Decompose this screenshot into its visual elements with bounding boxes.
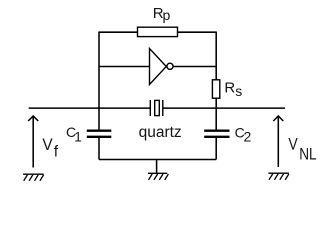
svg-text:quartz: quartz <box>139 124 182 141</box>
crystal X1 left plate <box>149 100 151 116</box>
capacitor C1 top plate <box>87 130 112 132</box>
wire left vertical (top rail to C1) <box>98 32 100 130</box>
wire mid rail right <box>163 107 285 109</box>
ground center <box>148 173 169 180</box>
label Vnl <box>288 135 298 153</box>
wire right vertical (Rs to C2) <box>215 98 217 130</box>
op-amp U1 inverter triangle <box>150 49 167 85</box>
svg-text:Rp: Rp <box>153 5 171 23</box>
wire mid rail left <box>29 107 151 109</box>
capacitor C1 bottom plate <box>87 136 112 138</box>
svg-text:NL: NL <box>299 145 317 164</box>
arrow Vf head <box>28 116 38 121</box>
arrow Vnl head <box>273 116 283 121</box>
wire right vertical (C2 to bottom rail) <box>215 138 217 160</box>
svg-text:V: V <box>288 135 298 153</box>
wire top rail right segment <box>178 31 217 33</box>
arrow Vf shaft <box>32 117 34 168</box>
ground right <box>268 173 289 180</box>
label Vf <box>42 136 58 160</box>
ground left <box>23 174 44 181</box>
capacitor C2 bottom plate <box>204 136 229 138</box>
capacitor C2 top plate <box>204 130 229 132</box>
wire inverter input <box>99 66 150 68</box>
label Vnl subscript NL <box>299 145 317 164</box>
wire right vertical (top rail to Rs) <box>215 32 217 81</box>
op-amp U1 inversion bubble <box>167 63 173 69</box>
wire inverter output <box>174 66 217 68</box>
arrow Vnl shaft <box>277 117 279 168</box>
wire bottom rail <box>99 159 216 161</box>
svg-text:Rs: Rs <box>224 79 242 99</box>
wire top rail left segment <box>99 31 138 33</box>
wire center ground stub <box>156 160 158 173</box>
wire left vertical (C1 to bottom rail) <box>98 138 100 160</box>
crystal X1 body <box>155 100 160 115</box>
crystal X1 right plate <box>162 100 164 116</box>
resistor Rp <box>138 27 178 36</box>
resistor Rs <box>212 80 219 98</box>
